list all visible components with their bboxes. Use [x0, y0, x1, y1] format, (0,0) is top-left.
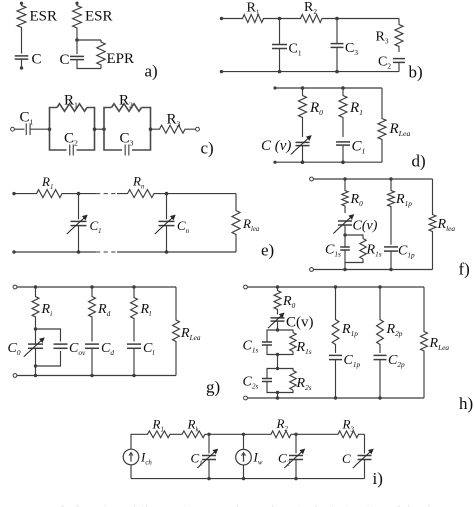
- variable capacitor C2 (i): [289, 455, 303, 457]
- resistor R1p (f): [388, 179, 395, 245]
- node junction (i bottom 3): [294, 477, 297, 480]
- node junction (c 3): [102, 127, 106, 131]
- terminal bottom left (f): [310, 268, 314, 272]
- wire: [279, 49, 281, 72]
- resistor R3 (i): [338, 431, 365, 438]
- wire: [130, 465, 132, 479]
- terminal top left (f): [310, 177, 314, 181]
- node junction (h block2 top): [276, 367, 279, 370]
- wire: [166, 194, 168, 220]
- resistor R1 (b): [222, 15, 280, 23]
- node junction (e bottom 1): [77, 250, 81, 254]
- node junction (h top 2): [334, 285, 337, 288]
- capacitor C1p (f): [384, 246, 398, 248]
- wire: [166, 226, 168, 252]
- node junction (d bottom 2): [341, 160, 345, 164]
- resistor Rlea (f right branch): [429, 179, 436, 270]
- node junction (b bottom 1): [278, 70, 282, 74]
- node junction (i bottom 2): [242, 477, 245, 480]
- node junction (g block top): [34, 327, 37, 330]
- svg-text:C: C: [60, 52, 70, 68]
- svg-text:C(v): C(v): [286, 315, 314, 331]
- resistor R3 (b right branch): [395, 19, 403, 53]
- wire: [275, 87, 382, 89]
- wire: [295, 434, 297, 453]
- node junction (g top 1): [34, 285, 37, 288]
- wire: [76, 40, 78, 54]
- wire: [77, 60, 101, 69]
- terminal top left (h): [244, 285, 248, 289]
- node junction (f bottom 2): [389, 268, 392, 271]
- wire: [342, 146, 344, 163]
- capacitor C1 (c series): [25, 123, 27, 135]
- resistor R1 (i): [147, 431, 177, 438]
- node junction (c 2): [93, 127, 97, 131]
- wire: [77, 39, 101, 41]
- wire: [336, 48, 338, 72]
- resistor R0 (f): [342, 179, 348, 213]
- capacitor C2s (h): [262, 378, 272, 380]
- node junction (h top 3): [378, 285, 381, 288]
- wire: [296, 433, 338, 435]
- wire: [222, 71, 400, 73]
- svg-text:C(v): C(v): [353, 219, 378, 234]
- capacitor C1 (d): [336, 141, 350, 143]
- wire: [344, 225, 346, 235]
- wire: [35, 329, 37, 344]
- wire: [279, 19, 281, 45]
- resistor RLea (d right branch): [378, 88, 386, 162]
- node junction (e bottom 2): [165, 250, 169, 254]
- variable capacitor C1 (e): [71, 220, 87, 222]
- wire: [398, 63, 400, 72]
- svg-text:i): i): [373, 469, 383, 488]
- wire: [17, 286, 176, 288]
- resistor EPR: [97, 40, 105, 69]
- wire: [21, 60, 23, 68]
- svg-text:g): g): [206, 378, 220, 397]
- resistor R3 (c series): [151, 125, 196, 133]
- wire: [243, 465, 245, 479]
- wire: [78, 194, 80, 220]
- variable capacitor C(v) (d): [296, 141, 310, 143]
- wire dashed (e bottom): [96, 251, 117, 253]
- node junction (h block1 bottom): [276, 353, 279, 356]
- node junction (f top 2): [389, 177, 392, 180]
- resistor R1 (d): [339, 88, 347, 137]
- wire: [275, 161, 382, 163]
- wire: [364, 434, 366, 453]
- node junction (h block1 top): [276, 328, 279, 331]
- current source Iw: [236, 449, 252, 465]
- terminal bottom left (h): [244, 396, 248, 400]
- wire: [79, 193, 97, 195]
- wire: [277, 355, 279, 369]
- resistor R2p (h): [377, 287, 384, 353]
- wire: [95, 128, 105, 130]
- node junction (h bottom 1): [276, 396, 279, 399]
- resistor RLea (h right branch): [421, 287, 428, 398]
- wire: [35, 348, 37, 375]
- parallel block frame (g): [36, 329, 61, 366]
- wire: [277, 322, 279, 331]
- svg-text:h): h): [459, 394, 473, 413]
- node junction (i top 3): [294, 433, 297, 436]
- svg-text:a): a): [145, 62, 158, 81]
- resistor Rlea (e right branch): [232, 194, 240, 252]
- wire: [313, 178, 432, 180]
- wire: [78, 226, 80, 252]
- resistor R0 (h): [274, 287, 281, 315]
- wire: [277, 393, 279, 399]
- node junction (d top 1): [301, 86, 305, 90]
- capacitor C (a right): [70, 55, 84, 57]
- node left end top (d): [273, 86, 276, 89]
- resistor ESR (a left): [17, 3, 26, 30]
- wire: [379, 360, 381, 398]
- wire: [91, 348, 93, 375]
- resistor RLea (g right branch): [173, 287, 180, 376]
- svg-text:d): d): [412, 151, 426, 170]
- resistor R2 (c): [112, 104, 142, 112]
- node junction (a right): [75, 38, 79, 42]
- node bottom terminal (a left): [20, 66, 23, 69]
- svg-text:C: C: [32, 52, 42, 68]
- wire: [209, 433, 244, 435]
- svg-text:C (v): C (v): [261, 138, 291, 154]
- svg-text:f): f): [459, 260, 470, 279]
- parallel block 1 frame (h): [267, 330, 293, 355]
- capacitor Cl (g): [127, 343, 141, 345]
- node left terminal top (b): [220, 17, 223, 20]
- node junction (f top 1): [343, 177, 346, 180]
- wire: [313, 269, 432, 271]
- wire: [335, 360, 337, 398]
- wire: [117, 251, 236, 253]
- node top terminal (a right): [75, 2, 78, 5]
- wire: [17, 375, 176, 377]
- capacitor C2 (c): [69, 145, 71, 156]
- resistor Rn (e): [117, 190, 167, 198]
- resistor R1s (h): [290, 333, 296, 352]
- wire: [247, 397, 424, 399]
- wire: [14, 251, 96, 253]
- capacitor C2p (h): [374, 354, 387, 356]
- node junction (g top 2): [90, 285, 93, 288]
- wire: [208, 460, 210, 479]
- terminal left (c): [11, 127, 15, 131]
- node junction (c 4): [149, 127, 153, 131]
- wire: [131, 478, 365, 480]
- node junction (e top 2): [165, 192, 169, 196]
- svg-text:b): b): [409, 63, 423, 82]
- resistor R1 (c): [57, 104, 87, 112]
- node junction (i top 2): [242, 433, 245, 436]
- capacitor Cd (g): [85, 343, 99, 345]
- wire: [302, 146, 304, 162]
- node junction (i bottom 1): [207, 477, 210, 480]
- node junction (b top 1): [278, 17, 282, 21]
- wire: [208, 434, 210, 453]
- variable capacitor C (i): [358, 455, 372, 457]
- wire: [243, 434, 245, 449]
- node junction (g block bottom): [34, 364, 37, 367]
- resistor Rk (i): [176, 431, 209, 438]
- wire: [14, 128, 24, 130]
- parallel block 1 frame (c): [50, 108, 95, 151]
- node junction (i top 1): [207, 433, 210, 436]
- terminal right (c): [196, 127, 200, 131]
- node junction (g bottom 2): [90, 374, 93, 377]
- svg-text:EPR: EPR: [107, 51, 135, 67]
- node junction (d bottom 1): [301, 160, 305, 164]
- node junction (d top 2): [341, 86, 345, 90]
- resistor R1 (e): [14, 190, 79, 198]
- capacitor C1s (h): [262, 341, 272, 343]
- capacitor Cov (g): [54, 343, 68, 345]
- svg-text:ESR: ESR: [30, 9, 58, 25]
- node left terminal bottom (b): [220, 70, 223, 73]
- parallel block frame (f): [345, 235, 363, 263]
- node junction (f bottom 1): [343, 268, 346, 271]
- variable capacitor C(v) (f): [338, 220, 352, 222]
- wire: [247, 286, 424, 288]
- resistor R0 (d): [299, 88, 307, 137]
- capacitor C1p (h): [329, 354, 342, 356]
- node junction (h bottom 2): [334, 396, 337, 399]
- wire: [336, 19, 338, 44]
- parallel block 2 frame (c): [104, 108, 151, 151]
- wire: [344, 235, 346, 247]
- node junction (c 1): [48, 127, 52, 131]
- node junction (b top 2): [335, 17, 339, 21]
- wire: [167, 193, 237, 195]
- node left terminal bottom (e): [12, 250, 15, 253]
- wire: [364, 460, 366, 479]
- wire: [21, 31, 23, 54]
- resistor R2s (h): [290, 371, 296, 391]
- parallel block 2 frame (h): [267, 369, 293, 393]
- node junction (h top 1): [276, 285, 279, 288]
- variable capacitor C(v) (h): [271, 317, 285, 319]
- variable capacitor Ci0 (g): [28, 343, 43, 345]
- resistor R1p (h): [332, 287, 339, 353]
- current source Ith: [123, 449, 139, 465]
- svg-text:e): e): [261, 241, 274, 260]
- capacitor C1 (b): [272, 44, 287, 46]
- node left terminal top (e): [12, 192, 15, 195]
- wire: [244, 433, 271, 435]
- terminal top left (g): [13, 285, 17, 289]
- svg-text:c): c): [201, 139, 214, 158]
- node left end bottom (d): [273, 161, 276, 164]
- capacitor C3 (b): [331, 43, 344, 45]
- wire: [30, 128, 49, 130]
- svg-text:1. A review of the most common: 1. A review of the most commonly used eq…: [60, 503, 440, 507]
- terminal bottom left (g): [13, 374, 17, 378]
- wire: [337, 18, 399, 20]
- wire: [131, 434, 147, 449]
- capacitor C1s (f): [340, 246, 350, 248]
- wire dashed (e top): [96, 193, 117, 195]
- node junction (e top 1): [77, 192, 81, 196]
- caption fragment (cut off): [60, 503, 440, 507]
- resistor Ri (g): [32, 287, 39, 329]
- wire: [295, 460, 297, 479]
- svg-text:ESR: ESR: [85, 9, 113, 25]
- node junction (b bottom 2): [335, 70, 339, 74]
- svg-text:C: C: [342, 451, 351, 466]
- wire: [76, 31, 78, 40]
- node junction (f block top): [343, 233, 346, 236]
- wire: [390, 251, 392, 269]
- capacitor C3 (c): [124, 145, 126, 156]
- resistor Rd (g): [89, 287, 96, 342]
- node junction (h bottom 3): [378, 396, 381, 399]
- node junction (g top 3): [132, 285, 135, 288]
- resistor ESR (a right): [73, 3, 82, 31]
- wire: [133, 348, 135, 375]
- node top terminal (a left): [20, 2, 23, 5]
- resistor R2 (b): [280, 15, 338, 23]
- node junction (g bottom 1): [34, 374, 37, 377]
- resistor Rl (g): [131, 287, 138, 342]
- wire: [344, 251, 346, 270]
- resistor R2 (i): [271, 431, 297, 438]
- variable capacitor C1 (i): [202, 455, 216, 457]
- node junction (g bottom 3): [132, 374, 135, 377]
- capacitor C2 (b right branch): [393, 58, 405, 60]
- node junction (h block2 bottom): [276, 391, 279, 394]
- resistor R1s (f): [360, 239, 366, 260]
- capacitor C (a left): [15, 55, 29, 57]
- variable capacitor Cn (e): [159, 220, 175, 222]
